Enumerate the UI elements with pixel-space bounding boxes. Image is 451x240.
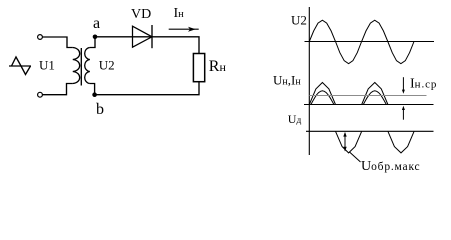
diode VD cathode bar [151, 25, 153, 48]
transformer T1 secondary winding [85, 48, 90, 84]
axis Uд [306, 130, 434, 132]
Iн.ср upper arrow [402, 77, 404, 90]
wire node a to diode to top-right corner [95, 37, 199, 54]
wire bottom-left to transformer primary [43, 84, 73, 95]
wire resistor bottom to bottom wire [95, 82, 199, 95]
svg-text:a: a [93, 15, 100, 32]
svg-text:U2: U2 [99, 58, 115, 73]
vertical axis [308, 7, 310, 155]
svg-text:VD: VD [131, 7, 151, 22]
terminal top-left [38, 35, 43, 40]
svg-text:b: b [96, 101, 104, 118]
Uд negative half-waves [336, 131, 362, 153]
resistor Rн [193, 54, 204, 82]
AC source symbol (sine glyph) [9, 57, 31, 75]
axis Uн,Iн [304, 104, 434, 106]
Uобр.макс double arrow [344, 133, 346, 150]
Iн inner humps [311, 91, 334, 105]
wire secondary bottom to node b [90, 84, 95, 95]
terminal bottom-left [38, 92, 43, 97]
Uн outer humps [309, 83, 335, 105]
axis U2 [305, 41, 435, 43]
sine U2 waveform [309, 20, 414, 64]
node a [93, 35, 98, 40]
svg-text:Iн: Iн [174, 6, 185, 21]
leader line [350, 152, 361, 162]
transformer core [80, 48, 82, 86]
svg-text:Iн.ср: Iн.ср [410, 76, 437, 91]
wire top-left to transformer primary [43, 37, 73, 48]
Iн.ср lower arrow [402, 110, 404, 120]
node b [92, 92, 97, 97]
svg-text:Uобр.макс: Uобр.макс [361, 159, 420, 174]
wire secondary top to node a [90, 37, 95, 48]
svg-text:U1: U1 [39, 58, 55, 73]
transformer T1 primary winding [73, 48, 80, 84]
average level line (gray) [309, 95, 426, 97]
diode VD triangle [133, 26, 153, 47]
svg-text:Rн: Rн [209, 58, 227, 75]
svg-text:U2: U2 [291, 13, 307, 28]
current arrow Iн [169, 28, 199, 30]
